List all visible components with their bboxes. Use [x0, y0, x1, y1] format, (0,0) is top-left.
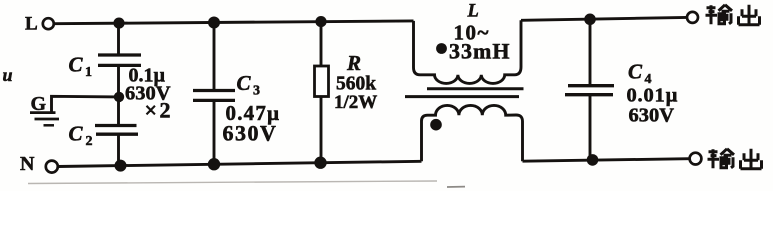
svg-text:3: 3	[253, 84, 260, 99]
ground G symbol	[30, 111, 56, 114]
svg-text:1/2W: 1/2W	[334, 92, 377, 113]
svg-text:L: L	[25, 14, 38, 35]
wire C3 top lead	[213, 23, 216, 91]
wire C4 bottom lead	[589, 95, 592, 160]
terminal output top circle	[687, 12, 698, 23]
terminal output bottom circle	[690, 153, 702, 165]
resistor R	[315, 66, 329, 97]
inductor core lines	[427, 87, 524, 90]
svg-text:2: 2	[86, 134, 93, 149]
node bottom R junction	[314, 157, 326, 169]
inductor L common-mode choke, bottom winding	[422, 105, 523, 161]
capacitor C3	[193, 89, 235, 92]
svg-text:630V: 630V	[223, 121, 278, 146]
svg-text:×2: ×2	[145, 98, 174, 123]
wire C2 bottom lead	[117, 134, 120, 165]
svg-text:u: u	[3, 65, 13, 85]
node top C4 junction	[584, 13, 596, 25]
char shu (top)	[706, 5, 718, 24]
terminal L (input, top-left circle)	[43, 18, 54, 29]
label output bottom (shu chu)	[708, 149, 762, 169]
wire ground branch	[52, 96, 120, 111]
node top R junction	[315, 16, 326, 27]
inductor L common-mode choke, top winding	[414, 20, 522, 83]
char chu (bottom)	[741, 149, 762, 169]
wire R bottom lead	[320, 97, 323, 163]
wire top bus from L terminal to choke top-left	[54, 21, 414, 24]
svg-text:C: C	[628, 60, 643, 84]
capacitor C1	[98, 53, 141, 56]
node bottom C3 junction	[208, 158, 220, 170]
wire bottom bus from N terminal to choke bottom-left	[58, 161, 422, 166]
capacitor C2	[95, 124, 137, 127]
svg-text:33mH: 33mH	[449, 39, 510, 64]
wire C1-C2 middle lead	[117, 65, 120, 125]
wire R top lead	[320, 22, 323, 66]
node G junction	[114, 92, 124, 102]
svg-text:C: C	[69, 53, 84, 77]
svg-text:L: L	[467, 2, 479, 22]
node top C1 junction	[113, 18, 124, 29]
label output top (shu chu)	[706, 5, 760, 25]
svg-text:C: C	[237, 71, 252, 95]
char shu (bottom)	[708, 149, 720, 168]
node phase dot bottom winding	[430, 119, 442, 131]
svg-text:N: N	[20, 153, 35, 175]
node bottom C2 junction	[115, 160, 127, 172]
svg-text:C: C	[69, 122, 84, 146]
svg-text:630V: 630V	[629, 105, 675, 127]
svg-text:1: 1	[85, 65, 92, 80]
terminal N (input, bottom-left circle)	[46, 161, 58, 173]
char chu (top)	[739, 5, 760, 25]
wire C3 bottom lead	[213, 100, 216, 164]
node top C3 junction	[208, 17, 220, 29]
svg-text:R: R	[346, 51, 361, 75]
scan streak artifact	[28, 181, 437, 184]
wire bottom bus right, choke to output	[523, 159, 690, 162]
capacitor C4	[568, 84, 614, 87]
node bottom C4 junction	[587, 154, 599, 166]
wire top bus right, choke to output	[521, 17, 687, 20]
node phase dot top winding	[436, 43, 447, 54]
svg-text:0.01µ: 0.01µ	[627, 85, 679, 107]
wire C1 top lead	[117, 23, 120, 54]
svg-text:G: G	[31, 93, 47, 115]
wire C4 top lead	[589, 19, 592, 85]
